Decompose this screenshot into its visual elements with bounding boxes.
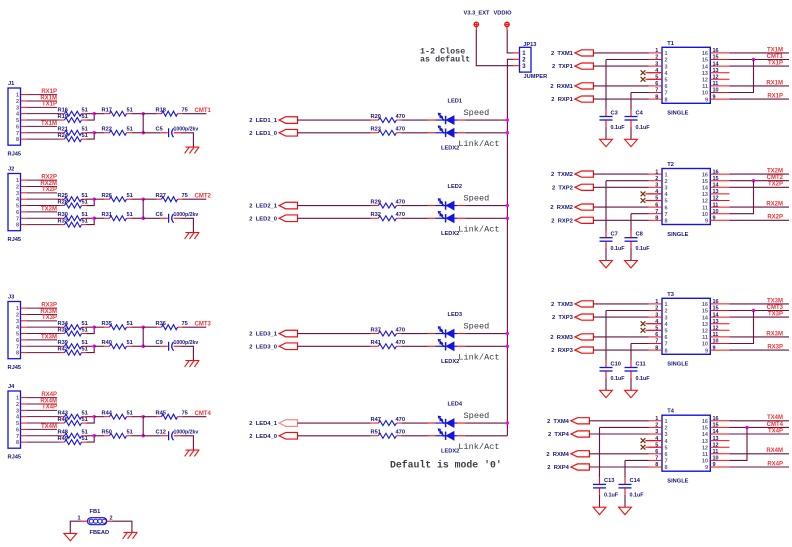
svg-text:C14: C14 <box>630 478 641 484</box>
svg-text:R42: R42 <box>58 346 68 352</box>
no-connect X T3 pin 4 <box>641 321 662 326</box>
wire to ground <box>181 346 193 360</box>
svg-text:13: 13 <box>713 68 719 74</box>
resistor R31 <box>102 212 133 221</box>
ground (chassis) FB1 right <box>123 532 138 538</box>
svg-text:4: 4 <box>665 71 669 77</box>
T1 pin 9 <box>705 94 730 103</box>
junction node <box>506 131 509 134</box>
svg-text:75: 75 <box>182 193 188 199</box>
port LED3_1 <box>249 330 297 337</box>
svg-text:5: 5 <box>16 118 19 124</box>
svg-text:R16: R16 <box>58 107 68 113</box>
T4 pin 6 <box>649 449 668 458</box>
wire <box>605 248 607 261</box>
svg-text:2: 2 <box>655 423 658 429</box>
junction node <box>142 197 145 200</box>
svg-text:CMT3: CMT3 <box>195 322 212 328</box>
svg-text:Link/Act: Link/Act <box>458 139 499 149</box>
label LED4 <box>448 402 463 408</box>
wire <box>94 435 104 437</box>
T2 pin 3 <box>649 183 668 192</box>
T3 pin 14 <box>702 312 730 321</box>
wire <box>132 217 144 219</box>
svg-text:9: 9 <box>713 216 716 222</box>
port LED4_1 <box>249 420 297 427</box>
wire J4 pin 8 <box>21 441 60 443</box>
T3 pin 4 <box>649 319 669 328</box>
wire J2 pin 5 <box>21 205 60 207</box>
junction node <box>506 118 509 121</box>
T1 pin 3 <box>649 61 668 70</box>
wire J4 pin 7 <box>21 435 60 437</box>
port RXP4 <box>547 464 589 471</box>
resistor R28 <box>58 199 88 208</box>
wire <box>593 316 648 318</box>
svg-text:14: 14 <box>713 61 720 67</box>
no-connect X T4 pin 4 <box>641 438 662 443</box>
T2 pin 11 <box>702 202 729 211</box>
junction node <box>142 415 145 418</box>
svg-text:1: 1 <box>655 48 658 54</box>
svg-text:7: 7 <box>16 434 19 440</box>
svg-text:6: 6 <box>655 449 658 455</box>
junction node <box>93 434 96 437</box>
svg-text:2: 2 <box>110 516 113 522</box>
svg-text:TX4P: TX4P <box>768 428 783 434</box>
svg-text:15: 15 <box>713 176 719 182</box>
svg-text:2 TXM3: 2 TXM3 <box>551 302 574 308</box>
svg-text:75: 75 <box>182 107 188 113</box>
svg-text:16: 16 <box>702 302 708 308</box>
T1 pin 10 <box>702 88 730 97</box>
label FBEAD <box>90 530 110 536</box>
svg-text:SINGLE: SINGLE <box>667 362 688 368</box>
svg-text:3: 3 <box>665 64 668 70</box>
svg-text:R49: R49 <box>58 436 68 442</box>
svg-text:4: 4 <box>665 322 669 328</box>
svg-text:C13: C13 <box>604 478 614 484</box>
svg-text:75: 75 <box>182 321 188 327</box>
svg-text:6: 6 <box>665 335 668 341</box>
T3 pin 1 <box>649 299 668 308</box>
svg-text:10: 10 <box>713 339 719 345</box>
wire <box>298 119 371 121</box>
wire pair A merge <box>87 199 95 205</box>
net label TX2P <box>768 182 783 188</box>
svg-text:2 TXP1: 2 TXP1 <box>552 64 574 70</box>
T2 pin 5 <box>649 196 668 205</box>
svg-text:2 RXP2: 2 RXP2 <box>551 218 573 224</box>
wire to LED bus <box>465 205 507 207</box>
wire <box>593 85 648 87</box>
T2 pin 6 <box>649 202 668 211</box>
svg-text:5: 5 <box>16 421 19 427</box>
svg-text:TX2P: TX2P <box>768 182 783 188</box>
svg-text:CMT2: CMT2 <box>767 175 784 181</box>
wire RX4M <box>730 453 790 455</box>
T3 pin 16 <box>702 299 730 308</box>
svg-text:TX3M: TX3M <box>41 334 57 340</box>
wire CMT2 <box>730 180 790 182</box>
svg-text:2 LED4_1: 2 LED4_1 <box>249 421 277 427</box>
svg-text:14: 14 <box>713 183 720 189</box>
svg-text:R21: R21 <box>58 127 68 133</box>
svg-text:1: 1 <box>16 306 19 312</box>
T3 pin 6 <box>649 332 668 341</box>
wire <box>593 206 648 208</box>
label SINGLE <box>667 362 688 368</box>
svg-text:13: 13 <box>702 71 708 77</box>
wire <box>298 422 371 424</box>
svg-text:5: 5 <box>665 78 668 84</box>
svg-text:3: 3 <box>655 183 658 189</box>
wire <box>298 205 371 207</box>
wire <box>631 213 649 215</box>
resistor R35 <box>102 321 133 330</box>
resistor R49 <box>58 436 88 445</box>
T4 pin 15 <box>702 423 730 432</box>
svg-text:7: 7 <box>665 91 668 97</box>
net label RX4M <box>766 448 783 454</box>
svg-text:R30: R30 <box>58 212 68 218</box>
svg-text:0.1uF: 0.1uF <box>611 376 626 382</box>
svg-text:8: 8 <box>665 97 668 103</box>
svg-text:51: 51 <box>82 430 88 436</box>
ground C14 <box>619 507 632 514</box>
ground C10 <box>600 390 613 397</box>
T3 pin 12 <box>702 326 730 335</box>
wire <box>298 435 371 437</box>
svg-text:51: 51 <box>82 212 88 218</box>
junction node <box>142 112 145 115</box>
svg-text:2: 2 <box>655 176 658 182</box>
wire J2 pin 7 <box>21 217 60 219</box>
T1 pin 6 <box>649 81 668 90</box>
svg-text:470: 470 <box>396 340 406 346</box>
svg-text:CMT1: CMT1 <box>767 54 784 60</box>
junction node <box>745 426 748 429</box>
wire pair B merge <box>87 346 95 352</box>
junction node <box>93 325 96 328</box>
wire J2 pin 3 <box>21 192 57 194</box>
svg-text:10: 10 <box>702 459 708 465</box>
resistor R18 <box>156 107 188 116</box>
junction node <box>506 421 509 424</box>
T1 pin 2 <box>649 55 668 64</box>
svg-text:CMT4: CMT4 <box>195 411 212 417</box>
wire <box>94 132 104 134</box>
svg-text:VDDIO: VDDIO <box>493 10 512 16</box>
svg-text:51: 51 <box>82 218 88 224</box>
wire to LED bus <box>465 132 507 134</box>
svg-text:R38: R38 <box>58 327 68 333</box>
svg-text:4: 4 <box>665 192 669 198</box>
svg-text:5: 5 <box>16 332 19 338</box>
wire <box>143 326 156 328</box>
net label TX2M <box>41 206 57 212</box>
svg-text:2 TXP4: 2 TXP4 <box>548 432 570 438</box>
wire <box>589 433 648 435</box>
wire <box>94 113 104 115</box>
svg-text:0.1uF: 0.1uF <box>636 246 651 252</box>
T4 pin 1 <box>649 416 668 425</box>
junction node <box>93 197 96 200</box>
T4 pin 11 <box>702 449 729 458</box>
T1 pin 11 <box>702 81 729 90</box>
svg-text:4: 4 <box>16 112 20 118</box>
wire node link <box>142 417 144 436</box>
wire FB1 pin 1 <box>70 521 87 533</box>
jumper JP13 <box>513 42 537 72</box>
svg-text:RX1P: RX1P <box>767 94 783 100</box>
junction node <box>93 217 96 220</box>
svg-text:8: 8 <box>16 351 19 357</box>
net label RX2M <box>40 181 57 187</box>
port LED1_1 <box>249 117 297 124</box>
svg-text:8: 8 <box>655 345 658 351</box>
note Default is mode '0' <box>390 459 502 470</box>
svg-text:LED2: LED2 <box>448 184 463 190</box>
LED LED2 <box>428 198 466 210</box>
svg-text:51: 51 <box>127 321 133 327</box>
svg-text:RX4M: RX4M <box>40 398 57 404</box>
svg-text:1: 1 <box>665 51 668 57</box>
svg-text:2 RXP4: 2 RXP4 <box>547 465 569 471</box>
wire RX2M <box>730 206 790 208</box>
svg-text:RX1M: RX1M <box>766 80 783 86</box>
T2 pin 15 <box>702 176 730 185</box>
power symbol VDDIO <box>493 10 512 30</box>
svg-text:R39: R39 <box>58 340 68 346</box>
wire J3 pin 2 <box>21 313 57 315</box>
svg-text:Default is mode '0': Default is mode '0' <box>390 459 502 470</box>
svg-text:0.1uF: 0.1uF <box>611 246 626 252</box>
label Link/Act <box>458 353 499 363</box>
svg-text:C6: C6 <box>156 212 163 218</box>
svg-text:4: 4 <box>16 325 20 331</box>
svg-text:51: 51 <box>82 346 88 352</box>
svg-text:51: 51 <box>127 107 133 113</box>
svg-text:7: 7 <box>665 459 668 465</box>
svg-text:Link/Act: Link/Act <box>458 442 499 452</box>
wire LED bus (JP13 pin 2) <box>507 59 513 435</box>
resistor R50 <box>102 430 133 439</box>
svg-text:7: 7 <box>16 216 19 222</box>
wire RX1P <box>730 98 790 100</box>
port TXM4 <box>547 418 589 425</box>
svg-text:J2: J2 <box>8 167 14 173</box>
wire <box>143 416 156 418</box>
svg-text:2 RXP3: 2 RXP3 <box>551 348 573 354</box>
svg-text:TX2M: TX2M <box>41 206 57 212</box>
LED LED3 <box>428 326 466 338</box>
net label TX4M <box>767 415 783 421</box>
ferrite bead FB1 <box>77 509 112 525</box>
wire CMT1 <box>730 59 790 61</box>
wire J3 pin 1 <box>21 307 57 309</box>
svg-text:470: 470 <box>396 199 406 205</box>
net label RX3P <box>767 345 783 351</box>
port RXP2 <box>551 217 593 224</box>
svg-text:10: 10 <box>713 456 719 462</box>
svg-text:C5: C5 <box>156 127 163 133</box>
label Speed <box>464 322 490 332</box>
T1 pin 7 <box>649 88 668 97</box>
resistor R27 <box>156 193 188 202</box>
wire VDDIO to JP13 pin 1 <box>507 30 513 53</box>
power symbol V3.3_EXT <box>464 10 490 30</box>
svg-text:TX4M: TX4M <box>41 424 57 430</box>
svg-text:1: 1 <box>77 516 80 522</box>
svg-text:51: 51 <box>127 410 133 416</box>
svg-text:0.1uF: 0.1uF <box>636 376 651 382</box>
svg-text:2: 2 <box>665 58 668 64</box>
wire <box>132 326 144 328</box>
net label CMT4 <box>195 411 212 417</box>
T3 pin 13 <box>702 319 730 328</box>
T3 pin 9 <box>705 345 730 354</box>
wire J2 pin 6 <box>21 211 57 213</box>
svg-text:51: 51 <box>82 193 88 199</box>
svg-text:2 LED3_0: 2 LED3_0 <box>249 344 277 350</box>
ground C8 <box>625 261 638 268</box>
svg-text:12: 12 <box>713 442 719 448</box>
wire J3 pin 7 <box>21 345 60 347</box>
wire to LED bus <box>465 119 507 121</box>
wire pair B merge <box>87 436 95 442</box>
T2 pin 12 <box>702 196 730 205</box>
svg-text:15: 15 <box>702 309 708 315</box>
resistor R36 <box>156 321 188 330</box>
resistor R26 <box>102 193 133 202</box>
no-connect X T4 pin 5 <box>641 445 662 450</box>
svg-text:T2: T2 <box>667 162 674 168</box>
net label CMT4 <box>767 422 784 428</box>
wire J4 pin 1 <box>21 397 57 399</box>
T4 pin 5 <box>649 442 668 451</box>
svg-text:2: 2 <box>16 99 19 105</box>
svg-text:13: 13 <box>713 319 719 325</box>
net label TX1P <box>768 61 783 67</box>
svg-text:3: 3 <box>16 191 19 197</box>
svg-text:R47: R47 <box>371 417 381 423</box>
svg-text:J4: J4 <box>8 384 15 390</box>
T1 pin 13 <box>702 68 730 77</box>
wire <box>599 495 601 508</box>
svg-text:12: 12 <box>702 445 708 451</box>
svg-text:51: 51 <box>127 212 133 218</box>
wire <box>593 52 648 54</box>
svg-text:R27: R27 <box>156 193 166 199</box>
svg-text:1: 1 <box>16 93 19 99</box>
svg-text:LED1: LED1 <box>448 99 463 105</box>
port RXM4 <box>546 451 589 458</box>
svg-text:6: 6 <box>16 124 19 130</box>
svg-text:15: 15 <box>702 179 708 185</box>
capacitor C6 <box>143 212 198 223</box>
wire to LED bus <box>465 217 507 219</box>
svg-text:0.1uF: 0.1uF <box>630 493 645 499</box>
svg-text:8: 8 <box>665 465 668 471</box>
junction node <box>142 325 145 328</box>
svg-text:5: 5 <box>16 204 19 210</box>
wire J1 pin 1 <box>21 94 57 96</box>
net label RX4M <box>40 398 57 404</box>
svg-text:11: 11 <box>713 449 719 455</box>
port LED4_0 <box>249 432 297 439</box>
svg-text:RJ45: RJ45 <box>8 455 22 461</box>
svg-text:1000p/2kv: 1000p/2kv <box>174 340 199 346</box>
T2 pin 8 <box>649 216 668 225</box>
wire <box>94 198 104 200</box>
svg-text:C10: C10 <box>611 361 621 367</box>
wire TX2M <box>730 173 790 175</box>
svg-text:R37: R37 <box>371 327 381 333</box>
resistor R48 <box>58 430 88 439</box>
svg-text:470: 470 <box>396 212 406 218</box>
T4 pin 16 <box>702 416 730 425</box>
net label TX1M <box>41 121 57 127</box>
T4 pin 13 <box>702 436 730 445</box>
wire <box>94 345 104 347</box>
port TXM2 <box>551 171 593 178</box>
junction node <box>506 332 509 335</box>
svg-text:15: 15 <box>702 58 708 64</box>
wire <box>143 198 156 200</box>
net label TX2P <box>42 187 57 193</box>
resistor R25 <box>58 193 88 202</box>
wire <box>593 219 648 221</box>
svg-text:R23: R23 <box>371 127 381 133</box>
svg-text:R43: R43 <box>58 410 68 416</box>
label Speed <box>464 411 490 421</box>
svg-text:1000p/2kv: 1000p/2kv <box>174 212 199 218</box>
wire RX4P <box>730 466 790 468</box>
svg-text:2: 2 <box>16 402 19 408</box>
T3 pin 10 <box>702 339 730 348</box>
LED LED4 <box>428 416 466 428</box>
net label CMT1 <box>195 108 212 114</box>
port TXM1 <box>551 50 593 57</box>
svg-text:R45: R45 <box>156 410 166 416</box>
svg-text:R20: R20 <box>371 114 381 120</box>
svg-text:16: 16 <box>713 169 719 175</box>
svg-text:1: 1 <box>522 51 526 57</box>
svg-text:R41: R41 <box>371 340 381 346</box>
svg-text:R46: R46 <box>58 417 68 423</box>
svg-text:Link/Act: Link/Act <box>458 225 499 235</box>
svg-text:SINGLE: SINGLE <box>667 479 688 485</box>
wire TX4M <box>730 420 790 422</box>
wire <box>589 466 648 468</box>
junction node <box>142 131 145 134</box>
svg-text:16: 16 <box>702 172 708 178</box>
svg-text:14: 14 <box>702 186 709 192</box>
LED LEDX2 <box>428 211 466 223</box>
ground C4 <box>625 139 638 146</box>
wire <box>606 180 649 182</box>
svg-text:11: 11 <box>713 81 719 87</box>
wire J2 pin 2 <box>21 185 57 187</box>
transformer T2 <box>662 162 710 225</box>
port TXP3 <box>552 314 593 321</box>
net label RX3M <box>40 309 57 315</box>
ground C3 <box>600 139 613 146</box>
svg-text:T3: T3 <box>667 292 674 298</box>
svg-text:RX3M: RX3M <box>766 331 783 337</box>
svg-text:T1: T1 <box>667 41 674 47</box>
